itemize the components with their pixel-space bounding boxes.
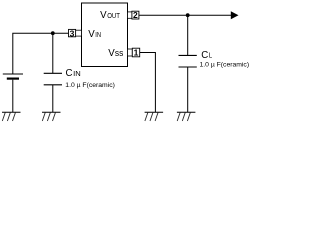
- wire CIN branch down: [52, 33, 54, 73]
- svg-text:L: L: [209, 51, 212, 60]
- pin name VSS: [108, 48, 123, 59]
- ground CL: [177, 112, 196, 121]
- svg-text:V: V: [100, 10, 107, 21]
- pin name VOUT: [100, 10, 120, 21]
- svg-text:V: V: [88, 29, 95, 40]
- svg-text:IN: IN: [73, 69, 81, 78]
- wire CL to ground: [187, 67, 189, 112]
- svg-text:C: C: [201, 50, 208, 61]
- svg-text:1.0 µ F(ceramic): 1.0 µ F(ceramic): [200, 62, 250, 69]
- label CL: [201, 50, 212, 61]
- svg-text:C: C: [66, 68, 73, 79]
- ground CIN: [42, 112, 61, 121]
- pin name VIN: [88, 29, 101, 40]
- battery BT1: [3, 74, 23, 79]
- capacitor CL: [179, 55, 197, 67]
- label CIN value 1.0uF ceramic: [65, 82, 115, 89]
- label CIN: [66, 68, 81, 79]
- pin 2 (VOUT): [128, 10, 139, 20]
- junction node VIN/CIN: [51, 31, 55, 35]
- wire pin3 to battery: [13, 33, 69, 73]
- label CL value 1.0uF ceramic: [200, 62, 250, 69]
- wire pin2 to output arrow: [139, 14, 232, 16]
- wire pin1 to ground: [140, 53, 156, 113]
- svg-text:1.0 µ F(ceramic): 1.0 µ F(ceramic): [65, 82, 115, 89]
- pin 1 (VSS): [128, 48, 140, 58]
- svg-text:1: 1: [134, 48, 139, 58]
- wire battery to ground: [12, 80, 14, 113]
- wire CL branch down: [187, 15, 189, 55]
- pin 3 (VIN): [69, 28, 82, 38]
- capacitor CIN: [44, 73, 62, 85]
- wire CIN to ground: [52, 85, 54, 113]
- ground VSS: [145, 112, 164, 121]
- ground battery: [2, 112, 21, 121]
- regulator U1 body: [82, 3, 128, 67]
- junction node VOUT/CL: [186, 13, 190, 17]
- svg-text:2: 2: [133, 10, 138, 20]
- svg-text:OUT: OUT: [107, 11, 120, 20]
- output arrow: [231, 11, 239, 19]
- svg-text:IN: IN: [95, 30, 101, 39]
- svg-text:3: 3: [70, 28, 75, 38]
- svg-text:ss: ss: [115, 48, 124, 58]
